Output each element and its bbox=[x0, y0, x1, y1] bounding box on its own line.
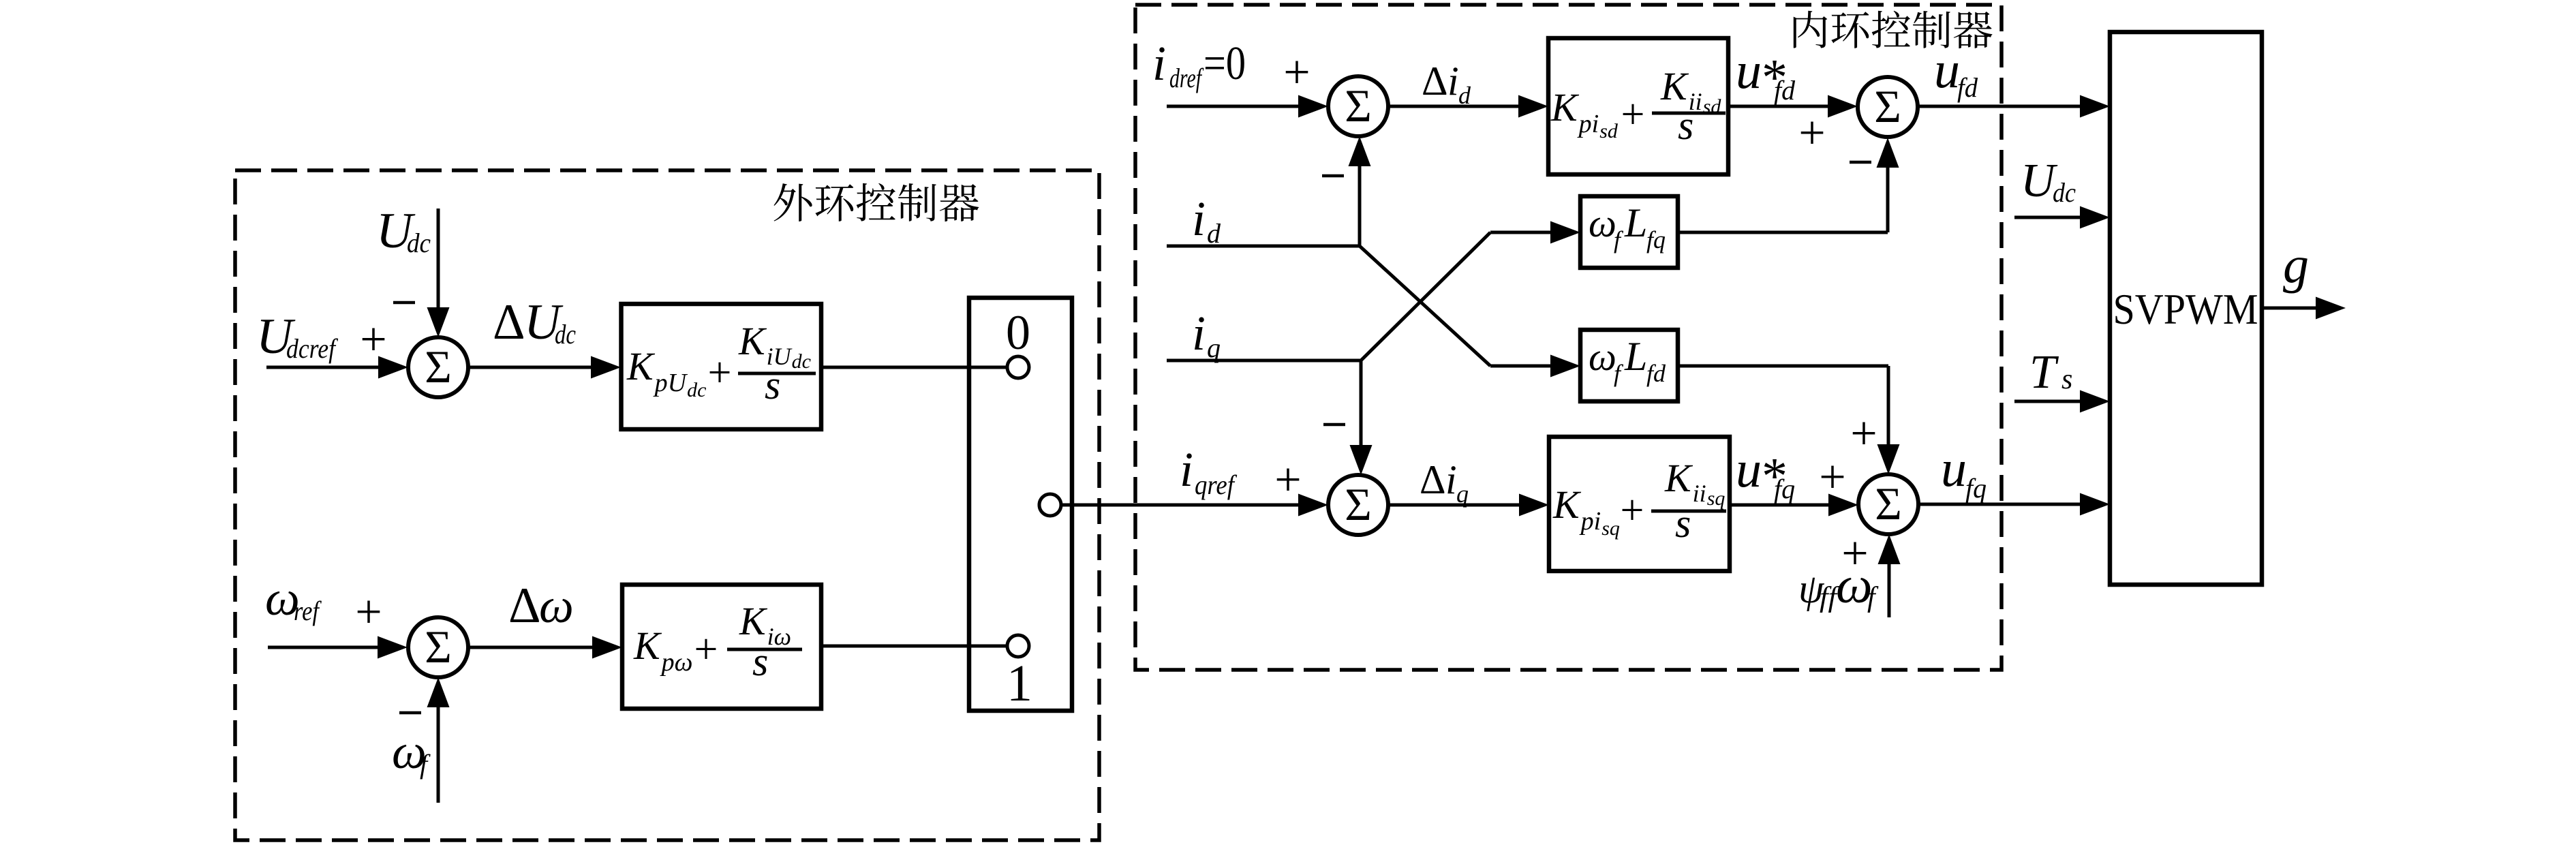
wire Udcref into sum A bbox=[266, 356, 408, 379]
svg-text:i: i bbox=[1445, 457, 1457, 502]
SVPWM block box bbox=[2110, 32, 2262, 585]
svg-text:K: K bbox=[1552, 482, 1582, 527]
svg-text:pω: pω bbox=[660, 648, 693, 677]
svg-text:Δ: Δ bbox=[493, 294, 525, 350]
PI block omega formula bbox=[633, 599, 802, 684]
wire PI block U to switch contact 0 bbox=[821, 366, 1007, 369]
svg-text:Δ: Δ bbox=[1422, 59, 1448, 104]
svg-text:u: u bbox=[1941, 440, 1967, 497]
svg-text:K: K bbox=[626, 344, 656, 388]
svg-text:dref: dref bbox=[1169, 63, 1204, 93]
svg-text:s: s bbox=[752, 639, 768, 684]
svg-text:+: + bbox=[1283, 46, 1310, 99]
svg-text:L: L bbox=[1624, 200, 1647, 245]
summing junction B bbox=[408, 617, 468, 677]
label iqref bbox=[1180, 442, 1237, 500]
plus sign at sum B left input bbox=[355, 586, 382, 638]
svg-text:T: T bbox=[2029, 346, 2059, 399]
summing junction 3 bbox=[1328, 475, 1388, 535]
label Udc (SVPWM input) bbox=[2021, 155, 2076, 208]
svg-text:sd: sd bbox=[1599, 120, 1619, 142]
minus sign at sum 2 bottom input bbox=[1850, 161, 1871, 164]
svg-text:f: f bbox=[1614, 226, 1624, 253]
svg-text:fq: fq bbox=[1646, 226, 1666, 253]
svg-text:pi: pi bbox=[1579, 507, 1601, 536]
svg-text:1: 1 bbox=[1007, 655, 1032, 712]
plus sign at sum 4 left input bbox=[1819, 451, 1845, 504]
minus sign at sum B bottom input bbox=[399, 711, 421, 715]
svg-text:f: f bbox=[1614, 360, 1624, 387]
switch box bbox=[969, 298, 1072, 711]
wire sum 2 to SVPWM bbox=[1918, 95, 2110, 118]
svg-text:ii: ii bbox=[1693, 480, 1706, 507]
svg-text:dc: dc bbox=[2053, 177, 2076, 208]
svg-text:+: + bbox=[1621, 91, 1645, 138]
svg-text:Σ: Σ bbox=[425, 341, 452, 392]
svg-text:fq: fq bbox=[1965, 473, 1987, 504]
wire switch output to sum 3 bbox=[1061, 494, 1328, 517]
plus sign at sum 1 left input bbox=[1283, 46, 1310, 99]
svg-text:fd: fd bbox=[1957, 72, 1978, 103]
svg-text:dc: dc bbox=[792, 350, 811, 373]
svg-text:i: i bbox=[1192, 306, 1206, 360]
svg-text:K: K bbox=[1664, 456, 1693, 500]
switch output contact circle bbox=[1039, 494, 1061, 516]
label omega_f bbox=[392, 724, 431, 780]
svg-text:K: K bbox=[633, 623, 662, 668]
svg-text:s: s bbox=[1678, 103, 1693, 148]
svg-text:ref: ref bbox=[294, 596, 322, 626]
PI block Kpisd+Kiisd/s box bbox=[1548, 38, 1728, 174]
wire PI block d to sum 2 bbox=[1728, 95, 1858, 118]
svg-text:+: + bbox=[708, 350, 732, 396]
label delta-Udc bbox=[493, 294, 576, 350]
svg-text:ω: ω bbox=[539, 579, 574, 633]
svg-text:+: + bbox=[1798, 107, 1825, 159]
wire wfLfd to sum 4 top bbox=[1678, 366, 1900, 474]
PI block d formula bbox=[1550, 64, 1726, 148]
svg-text:pi: pi bbox=[1577, 110, 1599, 138]
SVPWM block label bbox=[2113, 285, 2258, 333]
wire sum 1 to PI block d bbox=[1388, 95, 1548, 118]
label g (gate output) bbox=[2283, 236, 2309, 294]
svg-text:+: + bbox=[355, 586, 382, 638]
svg-text:g: g bbox=[2283, 236, 2309, 294]
block wfLfq formula bbox=[1589, 200, 1666, 253]
svg-text:SVPWM: SVPWM bbox=[2113, 285, 2258, 333]
wire sum B to PI block omega bbox=[468, 636, 622, 659]
svg-text:sq: sq bbox=[1707, 487, 1726, 510]
wire PI block q to sum 4 bbox=[1730, 494, 1858, 517]
plus sign at sum A left input bbox=[360, 313, 386, 366]
label Ts bbox=[2029, 346, 2072, 399]
svg-text:L: L bbox=[1624, 334, 1647, 379]
svg-text:i: i bbox=[1192, 191, 1206, 246]
svg-text:dcref: dcref bbox=[286, 333, 338, 364]
minus sign at sum 1 bottom input bbox=[1322, 174, 1344, 178]
wire sum 4 to SVPWM bbox=[1918, 493, 2110, 516]
wire Ts into SVPWM bbox=[2014, 390, 2110, 413]
block wfLfd box bbox=[1580, 330, 1678, 401]
svg-text:d: d bbox=[1207, 218, 1221, 249]
minus sign at sum A top input bbox=[393, 301, 415, 305]
wire iq diagonal to wfLfq bbox=[1361, 221, 1580, 361]
svg-text:s: s bbox=[2061, 364, 2072, 395]
svg-text:+: + bbox=[1621, 487, 1644, 534]
svg-text:+: + bbox=[694, 626, 718, 673]
block wfLfq box bbox=[1580, 196, 1678, 268]
label iq bbox=[1192, 306, 1221, 363]
svg-text:Σ: Σ bbox=[425, 621, 452, 673]
plus sign at sum 4 top input bbox=[1850, 407, 1877, 460]
switch contact 0 circle bbox=[1007, 356, 1029, 378]
wire id input bbox=[1167, 245, 1360, 248]
PI block U formula bbox=[626, 319, 816, 407]
label psi_ff omega_f bbox=[1798, 557, 1879, 614]
label delta-id bbox=[1422, 59, 1471, 109]
svg-text:K: K bbox=[739, 599, 768, 643]
svg-text:i: i bbox=[1152, 36, 1166, 91]
PI block KpUdc+KiUdc/s box bbox=[622, 304, 822, 429]
svg-text:sq: sq bbox=[1601, 517, 1620, 540]
PI block Kpw+Kiw/s box bbox=[622, 585, 821, 709]
label omega_ref bbox=[265, 571, 322, 626]
label: outer loop controller (Chinese) bbox=[773, 183, 979, 221]
label ufq bbox=[1941, 440, 1987, 504]
summing junction A bbox=[408, 337, 468, 397]
svg-text:u: u bbox=[1736, 441, 1762, 498]
svg-text:Δ: Δ bbox=[508, 578, 541, 634]
plus sign at sum 2 left input bbox=[1798, 107, 1825, 159]
summing junction 2 bbox=[1858, 77, 1918, 137]
svg-text:dc: dc bbox=[687, 379, 706, 401]
svg-text:K: K bbox=[738, 319, 767, 363]
svg-text:dc: dc bbox=[407, 228, 431, 258]
wire iq input bbox=[1167, 359, 1361, 363]
wire g output bbox=[2262, 297, 2346, 320]
wire omega_ref into sum B bbox=[268, 636, 408, 659]
label 0 (switch position) bbox=[1006, 305, 1030, 360]
svg-text:u: u bbox=[1934, 42, 1960, 99]
svg-text:u: u bbox=[1736, 42, 1762, 99]
wire id up into sum 1 bbox=[1349, 136, 1371, 246]
svg-text:=0: =0 bbox=[1203, 37, 1246, 90]
svg-text:fd: fd bbox=[1774, 75, 1796, 106]
svg-text:s: s bbox=[765, 363, 780, 407]
block wfLfd formula bbox=[1589, 334, 1666, 387]
svg-text:fd: fd bbox=[1646, 360, 1666, 387]
svg-text:iω: iω bbox=[767, 623, 791, 650]
wire PI block omega to switch contact 1 bbox=[821, 645, 1007, 648]
svg-text:i: i bbox=[1447, 59, 1459, 104]
wire idref into sum 1 bbox=[1167, 95, 1328, 118]
label: inner loop controller (Chinese) bbox=[1794, 11, 1993, 48]
label Udc (outer input) bbox=[376, 203, 431, 259]
wire sum 3 to PI block q bbox=[1388, 494, 1549, 517]
minus sign at sum 3 top input bbox=[1323, 423, 1345, 427]
plus sign at sum 4 bottom input bbox=[1841, 527, 1868, 580]
svg-text:Σ: Σ bbox=[1345, 478, 1372, 530]
svg-text:dc: dc bbox=[555, 319, 576, 350]
svg-text:ω: ω bbox=[1589, 201, 1616, 245]
label delta-iq bbox=[1420, 457, 1469, 508]
svg-text:K: K bbox=[1660, 64, 1689, 108]
summing junction 1 bbox=[1328, 76, 1388, 136]
PI block q formula bbox=[1552, 456, 1726, 546]
svg-text:qref: qref bbox=[1195, 469, 1237, 500]
svg-text:Σ: Σ bbox=[1875, 478, 1902, 529]
svg-text:Σ: Σ bbox=[1874, 80, 1901, 132]
label u*fd bbox=[1736, 42, 1796, 106]
label u*fq bbox=[1736, 441, 1795, 505]
label Udcref bbox=[256, 309, 338, 365]
wire Udc into SVPWM bbox=[2014, 206, 2110, 229]
label idref=0 bbox=[1152, 36, 1246, 93]
svg-text:K: K bbox=[1550, 85, 1580, 129]
wire psi_ff*omega_f into sum 4 from below bbox=[1878, 534, 1901, 617]
label id bbox=[1192, 191, 1221, 249]
label 1 (switch position) bbox=[1007, 655, 1032, 712]
svg-text:q: q bbox=[1207, 333, 1221, 363]
svg-text:pU: pU bbox=[653, 369, 688, 397]
wire omega_f vertical into sum B bbox=[427, 677, 450, 803]
svg-text:f: f bbox=[420, 749, 431, 780]
plus sign at sum 3 left input bbox=[1274, 454, 1301, 506]
label ufd bbox=[1934, 42, 1978, 103]
svg-text:fq: fq bbox=[1774, 474, 1795, 504]
svg-text:ω: ω bbox=[1589, 335, 1616, 379]
wire iq down into sum 3 bbox=[1350, 360, 1373, 475]
svg-text:+: + bbox=[1819, 451, 1845, 504]
svg-text:+: + bbox=[1274, 454, 1301, 506]
wire id diagonal to wfLfd bbox=[1360, 246, 1580, 378]
svg-text:i: i bbox=[1180, 442, 1193, 497]
inner loop controller dashed box bbox=[1135, 5, 2002, 670]
wire sum A to PI block U bbox=[468, 356, 621, 379]
svg-text:+: + bbox=[1850, 407, 1877, 460]
svg-text:Δ: Δ bbox=[1420, 457, 1446, 502]
wire Udc vertical into sum A bbox=[427, 209, 450, 337]
switch contact 1 circle bbox=[1007, 635, 1029, 657]
PI block Kpisq+Kiisq/s box bbox=[1549, 437, 1730, 571]
outer loop controller dashed box bbox=[235, 170, 1099, 840]
svg-text:0: 0 bbox=[1006, 305, 1030, 360]
summing junction 4 bbox=[1858, 474, 1918, 534]
svg-text:f: f bbox=[1867, 582, 1879, 613]
svg-text:s: s bbox=[1675, 501, 1691, 546]
wire wfLfq to sum 2 bottom bbox=[1678, 138, 1899, 232]
label delta-omega bbox=[508, 578, 574, 634]
svg-text:Σ: Σ bbox=[1345, 80, 1372, 132]
